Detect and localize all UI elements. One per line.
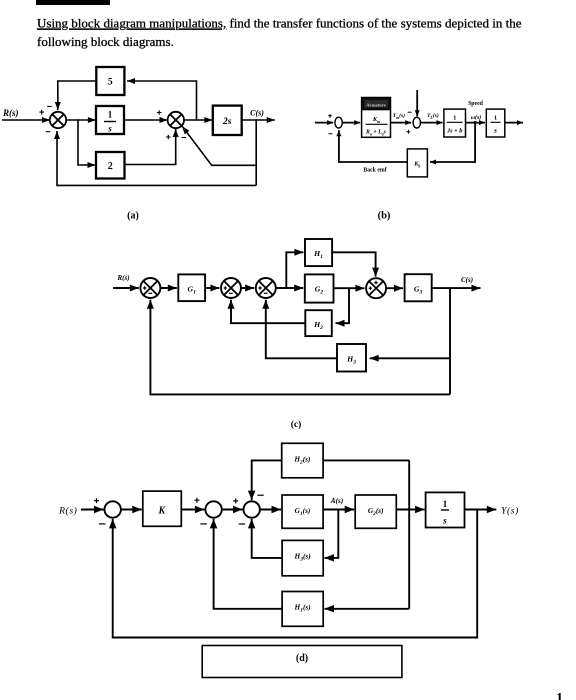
caption (a) [127, 211, 139, 222]
label Tm(s) [393, 112, 406, 120]
block armature Km/(Ra+La s) (diagram b) [362, 98, 391, 138]
block 1/s (diagram b) [486, 109, 505, 137]
wire R(s) to summing junction SD1 [81, 506, 104, 513]
wire H3 to SC3 bottom [262, 300, 337, 359]
wire block 5 to S1 top [55, 81, 97, 110]
wire SD2 to summing junction SD3 [222, 506, 243, 513]
wire G2 to summing junction SC4 [334, 285, 365, 292]
svg-text:Back emf: Back emf [363, 168, 386, 174]
summing junction SC4 (diagram c) [366, 278, 386, 298]
block H1(s) (diagram d) [282, 592, 323, 627]
wire SC3 to block G2 [276, 285, 303, 292]
svg-text:1: 1 [556, 691, 563, 700]
svg-text:R(s): R(s) [58, 506, 77, 517]
block G1 (diagram c) [178, 274, 205, 301]
block 1/s (diagram a) [96, 106, 124, 134]
svg-text:5: 5 [108, 78, 113, 88]
wire H2 to SC2 bottom [228, 300, 306, 323]
wire node to block 2 [78, 120, 96, 168]
label A(s) node [330, 496, 344, 505]
block 1/(Js+b) (diagram b) [444, 109, 466, 137]
wire K to summing junction SD2 [181, 506, 204, 513]
wire block 1/s to summing junction S2 [124, 117, 168, 123]
caption box (d) [202, 646, 402, 678]
svg-text:ω(s): ω(s) [471, 114, 481, 121]
svg-text:Tm(s): Tm(s) [393, 112, 406, 120]
wire C(s) tap into block H3 [370, 355, 450, 362]
summing junction SB1 (diagram b) [328, 114, 342, 134]
label R(s) input diagram a [2, 108, 19, 118]
node A(s) tap [337, 509, 339, 511]
wire speed node to block Kb [430, 123, 475, 165]
wire Kb to SB1 bottom (back emf) [336, 130, 407, 162]
block G2 (diagram c) [305, 274, 334, 302]
svg-text:following block diagrams.: following block diagrams. [37, 34, 174, 49]
wire outer feedback Y(s) to SD1 bottom [109, 510, 477, 638]
label omega(s) [471, 114, 481, 121]
wire H3(s) to SD3 bottom [248, 519, 282, 558]
wire middle feedback diagonal into S2 [182, 126, 256, 165]
block G1(s) (diagram d) [282, 495, 323, 528]
wire node B to H2(s) input [323, 459, 409, 461]
block Kb (diagram b) [407, 149, 427, 177]
wire SC4 to block G3 [386, 285, 403, 292]
wire A(s) node into H3(s) [325, 510, 339, 562]
svg-text:C(s): C(s) [250, 109, 264, 118]
block 2s (diagram a) [213, 106, 242, 135]
wire R(s) to summing junction S1 [2, 117, 50, 123]
wire bottom feedback to SC1 bottom [147, 300, 450, 395]
wire S2 to block 2s [184, 117, 212, 123]
wire G1(s) to block G2(s) [323, 506, 354, 513]
svg-text:2: 2 [108, 161, 113, 172]
caption (b) [378, 211, 391, 222]
label TL(s) [427, 112, 439, 120]
block H3(s) (diagram d) [282, 540, 323, 575]
wire G1 to summing junction SC2 [205, 285, 219, 292]
svg-text:A(s): A(s) [330, 496, 344, 505]
svg-text:TL(s): TL(s) [427, 112, 439, 120]
block 2 (diagram a) [96, 152, 125, 179]
summing junction S2 (diagram a) [157, 110, 186, 139]
block G3 (diagram c) [405, 274, 432, 301]
wire SD3 to block G1(s) [260, 506, 281, 513]
svg-text:1: 1 [443, 499, 448, 509]
node speed tap [474, 121, 477, 124]
svg-text:1: 1 [108, 110, 113, 120]
page number fragment [556, 691, 563, 700]
summing junction SC1 (diagram c) [140, 278, 160, 298]
sign minus disturbance [408, 111, 412, 113]
summing junction SD1 (diagram d) [94, 498, 121, 524]
svg-text:(d): (d) [296, 653, 308, 664]
summing junction SB2 (diagram b) [407, 117, 421, 133]
wire input to summing junction SB1 [315, 120, 333, 125]
svg-text:Using block diagram manipulati: Using block diagram manipulations, find … [37, 16, 522, 31]
block H3 (diagram c) [337, 344, 366, 372]
wire 1/(Js+b) to block 1/s [466, 120, 486, 125]
wire H2(s) to SD3 top [248, 460, 282, 500]
wire armature to summing junction SB2 [391, 120, 412, 125]
wire SB2 to block 1/(Js+b) [421, 120, 443, 125]
svg-text:(a): (a) [127, 211, 139, 222]
wire disturbance input into SB2 top [415, 90, 420, 116]
node Y(s) tap [476, 509, 478, 511]
wire output (diagram b) [505, 120, 523, 125]
wire C(s) node down to feedback lines [255, 120, 257, 185]
wire SB1 to armature block [343, 120, 360, 125]
label Y(s) output [501, 506, 519, 517]
summing junction SC3 (diagram c) [256, 278, 276, 298]
wire 1/s to Y(s) output [465, 506, 497, 513]
wire R(s) to summing junction SC1 [113, 285, 139, 292]
block H2(s) (diagram d) [282, 443, 323, 478]
wire G2(s) to block 1/s [396, 506, 424, 513]
svg-text:C(s): C(s) [461, 276, 473, 284]
node tap to H2 [348, 287, 350, 289]
svg-text:(b): (b) [378, 211, 391, 222]
svg-text:s: s [493, 127, 497, 135]
svg-text:Js + b: Js + b [446, 128, 462, 135]
node C(s) tap [255, 119, 257, 121]
wire G3 to C(s) output [432, 285, 481, 292]
label R(s) diagram c [116, 274, 129, 282]
wire S1 to block 1/s [66, 117, 96, 123]
wire C(s) node down (diagram c) [449, 288, 451, 394]
svg-text:Armature: Armature [366, 103, 386, 108]
wire node to block H1 [286, 249, 303, 288]
svg-text:R(s): R(s) [2, 108, 19, 118]
wire H1(s) to SD2 bottom [210, 519, 282, 609]
node tap to H1 [285, 287, 287, 289]
label Back emf [363, 168, 386, 174]
block 1/s (diagram d) [426, 492, 465, 527]
node tap to H1 and H2 [408, 509, 410, 511]
wire block 2 to S2 bottom [125, 129, 179, 165]
label C(s) diagram c [461, 276, 473, 284]
wire SC2 to summing junction SC3 [241, 285, 254, 292]
wire SD1 to block K [121, 506, 142, 513]
svg-text:Ra + Las: Ra + Las [365, 129, 387, 136]
block G2(s) (diagram d) [355, 495, 396, 528]
summing junction SC2 (diagram c) [221, 278, 241, 298]
wire node down into block H2 [336, 288, 350, 327]
block H1 (diagram c) [305, 239, 332, 266]
wire block 2s to C(s) output [242, 117, 275, 123]
label Speed [468, 101, 484, 107]
svg-text:Speed: Speed [468, 101, 484, 107]
wire H1 to summing junction SC4 top [332, 252, 379, 276]
node branch to block 2 [77, 119, 79, 121]
wire SC1 to block G1 [160, 285, 176, 292]
svg-text:2s: 2s [222, 117, 232, 127]
summing junction SD2 (diagram d) [194, 498, 221, 524]
wire vertical node B to H1 row [408, 460, 410, 608]
svg-text:K: K [157, 506, 166, 517]
block H2 (diagram c) [305, 310, 332, 336]
summing junction S1 (diagram a) [39, 106, 66, 131]
wire node B into H1(s) [325, 605, 410, 613]
problem statement line 1 [37, 16, 522, 31]
summing junction SD3 (diagram d) [233, 495, 264, 524]
svg-text:R(s): R(s) [116, 274, 129, 282]
svg-text:(c): (c) [291, 419, 302, 430]
problem statement line 2 [37, 34, 174, 49]
wire node to block 5 (top feedback tap) [127, 78, 197, 120]
label R(s) diagram d [58, 506, 77, 517]
caption (c) [291, 419, 302, 430]
svg-text:Y(s): Y(s) [501, 506, 519, 517]
block 5 (diagram a) [96, 67, 124, 95]
heading bar [36, 0, 110, 5]
wire bottom feedback to S1 bottom [54, 131, 256, 185]
svg-text:s: s [442, 516, 447, 526]
node C(s) tap (diagram c) [449, 287, 451, 289]
svg-text:1: 1 [494, 115, 497, 122]
svg-text:1: 1 [453, 115, 456, 122]
label C(s) output diagram a [250, 109, 264, 118]
svg-text:s: s [107, 124, 112, 134]
block K (diagram d) [143, 491, 182, 526]
